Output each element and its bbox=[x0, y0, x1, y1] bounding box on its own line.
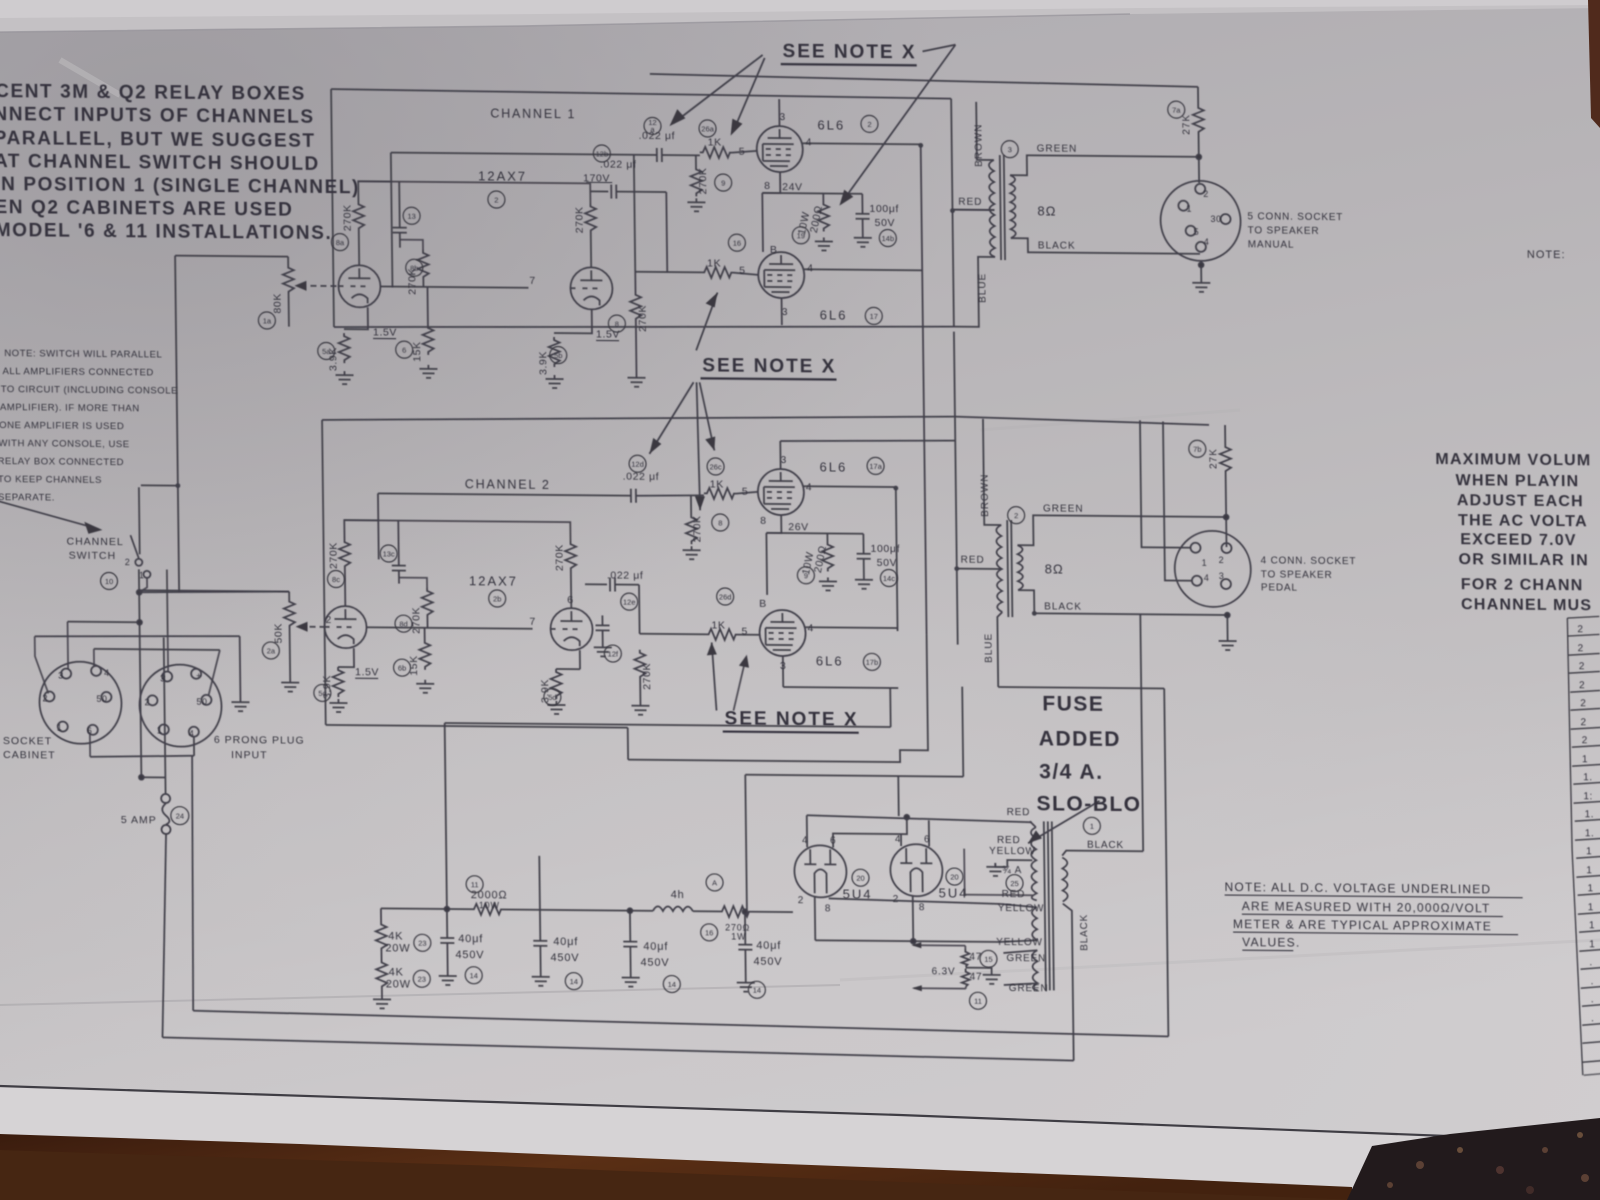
svg-text:BLACK: BLACK bbox=[1079, 914, 1090, 951]
svg-text:270K: 270K bbox=[554, 544, 566, 571]
wire: V6a cathode bbox=[338, 648, 354, 667]
svg-text:40μf: 40μf bbox=[553, 936, 578, 948]
svg-text:GREEN: GREEN bbox=[1009, 983, 1049, 994]
resistor 3.9K V3b bbox=[549, 337, 560, 367]
svg-text:14b: 14b bbox=[882, 234, 895, 243]
svg-text:14: 14 bbox=[469, 971, 477, 980]
wire: inner top rail bbox=[780, 439, 955, 443]
svg-text:1: 1 bbox=[139, 570, 145, 580]
wire: switch riser to contact bbox=[138, 487, 141, 554]
svg-text:GREEN: GREEN bbox=[1006, 953, 1046, 964]
svg-text:2: 2 bbox=[1578, 643, 1584, 654]
wire: channel 2 box right bbox=[955, 417, 958, 645]
wire: hline y625 bbox=[68, 621, 140, 624]
svg-text:50: 50 bbox=[96, 694, 107, 704]
svg-text:8c: 8c bbox=[332, 575, 340, 584]
wire: bus continues down bbox=[922, 276, 926, 634]
svg-text:12f: 12f bbox=[608, 649, 619, 658]
svg-text:2: 2 bbox=[1579, 661, 1585, 672]
svg-text:5b: 5b bbox=[554, 351, 562, 360]
svg-text:24V: 24V bbox=[782, 181, 803, 193]
wire: V2 plate down and along box bottom bbox=[781, 298, 783, 325]
svg-text:26V: 26V bbox=[788, 521, 809, 533]
socket 4-conn to speaker pedal bbox=[1174, 531, 1251, 608]
svg-text:1K: 1K bbox=[707, 257, 721, 269]
wire: mains inner left vertical bbox=[190, 756, 195, 1011]
svg-text:27K: 27K bbox=[1181, 114, 1192, 135]
svg-text:RED: RED bbox=[961, 555, 985, 566]
resistor 1K ch2 upper bbox=[704, 488, 736, 499]
resistor 270K V3b tail bbox=[634, 272, 636, 292]
ground 50K bbox=[281, 679, 299, 692]
svg-text:17a: 17a bbox=[869, 462, 882, 471]
svg-text:CABINET: CABINET bbox=[3, 749, 56, 761]
wire: channel 1 box left bbox=[331, 89, 334, 327]
svg-text:9: 9 bbox=[721, 179, 725, 188]
svg-text:.: . bbox=[1589, 957, 1592, 968]
svg-text:FUSE: FUSE bbox=[1042, 692, 1104, 716]
svg-text:10W: 10W bbox=[479, 900, 500, 910]
wire: OPT2 red lead bbox=[957, 568, 1002, 570]
see note x top arrows bbox=[673, 54, 764, 124]
wire: OPT2 blue lead down bbox=[997, 612, 1003, 687]
resistor 200ohm 10W bbox=[822, 193, 824, 201]
svg-text:IN POSITION 1 (SINGLE CHANNEL): IN POSITION 1 (SINGLE CHANNEL) bbox=[0, 174, 360, 198]
ground below 270K bbox=[687, 198, 705, 211]
svg-text:5 AMP: 5 AMP bbox=[121, 814, 157, 826]
svg-text:THE AC VOLTA: THE AC VOLTA bbox=[1458, 512, 1588, 530]
svg-text:5U4: 5U4 bbox=[843, 887, 873, 902]
wire: sock1 feeds bbox=[35, 636, 49, 693]
wire: V4 plate up to box bbox=[779, 441, 781, 469]
svg-text:4: 4 bbox=[807, 622, 814, 634]
svg-text:5: 5 bbox=[742, 486, 749, 498]
wire: OPT1 blue lead down bbox=[953, 257, 996, 327]
op tube V2 6L6 lower bbox=[758, 252, 805, 298]
svg-text:5: 5 bbox=[741, 626, 748, 638]
resistor 15K cathode bias bbox=[426, 287, 428, 325]
svg-text:2: 2 bbox=[125, 557, 131, 567]
svg-text:EN Q2 CABINETS ARE USED: EN Q2 CABINETS ARE USED bbox=[0, 197, 294, 221]
wire: hline y780 bbox=[141, 776, 165, 778]
preamp V3 12AX7 section A bbox=[338, 265, 381, 307]
junction dot bbox=[1196, 154, 1201, 159]
svg-text:27K: 27K bbox=[1208, 448, 1219, 469]
svg-text:PEDAL: PEDAL bbox=[1261, 582, 1298, 593]
svg-text:3: 3 bbox=[782, 306, 789, 318]
svg-text:8d: 8d bbox=[399, 620, 407, 629]
wire: OPT1 green secondary to socket bbox=[1010, 155, 1199, 177]
svg-text:450V: 450V bbox=[753, 956, 782, 968]
wire: V2 pin4 to screen bus bbox=[804, 269, 922, 270]
underline marks for voltages bbox=[349, 180, 812, 682]
capacitor 100uf ch2 bbox=[862, 534, 864, 554]
wire: switch riser vertical bbox=[175, 256, 179, 593]
svg-text:3: 3 bbox=[58, 671, 64, 681]
ground 3.9K V3b bbox=[545, 375, 563, 388]
svg-text:5U4: 5U4 bbox=[939, 885, 969, 900]
svg-text:23: 23 bbox=[418, 975, 426, 984]
wire: mains outer line bbox=[162, 1037, 1073, 1060]
svg-text:3.9K: 3.9K bbox=[537, 351, 549, 375]
coupling cap .022 ch2 bbox=[585, 583, 607, 585]
wire: B+ drop to filter bbox=[745, 775, 747, 912]
svg-text:14: 14 bbox=[570, 977, 578, 986]
svg-text:14: 14 bbox=[668, 980, 676, 989]
svg-text:1a: 1a bbox=[263, 316, 272, 325]
speaker socket labels bbox=[1247, 211, 1356, 594]
svg-text:7: 7 bbox=[529, 616, 536, 628]
svg-text:5d: 5d bbox=[548, 693, 556, 702]
svg-text:26d: 26d bbox=[719, 592, 732, 601]
faint creases bbox=[0, 14, 1130, 32]
svg-text:8: 8 bbox=[825, 903, 832, 914]
svg-text:MANUAL: MANUAL bbox=[1248, 239, 1295, 250]
svg-text:SEE NOTE X: SEE NOTE X bbox=[782, 41, 916, 63]
circled reference numbers bbox=[95, 91, 1213, 1011]
svg-text:20W: 20W bbox=[385, 942, 410, 954]
svg-text:FOR 2 CHANN: FOR 2 CHANN bbox=[1461, 576, 1584, 594]
wire: fuse lead bbox=[164, 637, 166, 794]
svg-text:4 CONN. SOCKET: 4 CONN. SOCKET bbox=[1261, 555, 1357, 567]
wire: input from switch riser bbox=[175, 256, 288, 257]
wire: input harness h1 bbox=[139, 569, 141, 777]
svg-text:CHANNEL: CHANNEL bbox=[66, 536, 123, 549]
socket labels bbox=[3, 732, 306, 828]
svg-text:4K: 4K bbox=[389, 966, 404, 978]
switch lever bbox=[130, 535, 138, 558]
svg-text:9: 9 bbox=[804, 571, 808, 580]
wire: V3a cathode bbox=[344, 307, 368, 329]
ground 200ohm bbox=[815, 237, 833, 250]
wire: cathode rail yellow top bbox=[829, 898, 1001, 904]
svg-text:6: 6 bbox=[924, 834, 931, 845]
svg-text:.: . bbox=[1591, 976, 1594, 987]
resistor 3.9K V6b bbox=[551, 669, 562, 699]
svg-text:4: 4 bbox=[802, 835, 809, 846]
wire: channel 2 box left bbox=[322, 420, 326, 725]
svg-text:1: 1 bbox=[1186, 204, 1192, 214]
ground 15K bbox=[419, 365, 437, 378]
svg-text:1: 1 bbox=[1090, 822, 1094, 831]
wire: x640 vertical ch2 bbox=[638, 585, 641, 634]
svg-text:2: 2 bbox=[1582, 735, 1588, 746]
svg-text:2b: 2b bbox=[493, 594, 501, 603]
wire: stub at y488 bbox=[141, 484, 178, 486]
wire: PS box left / cap1 lead bbox=[445, 723, 448, 938]
svg-text:BROWN: BROWN bbox=[973, 123, 985, 166]
PT primary winding bbox=[1062, 858, 1068, 902]
svg-text:INPUT: INPUT bbox=[231, 749, 268, 761]
see note x3 arrow bbox=[712, 642, 717, 710]
svg-text:1.: 1. bbox=[1585, 809, 1594, 820]
svg-text:4: 4 bbox=[806, 481, 813, 493]
svg-text:6L6: 6L6 bbox=[816, 653, 844, 668]
svg-text:3: 3 bbox=[780, 660, 787, 672]
svg-text:6L6: 6L6 bbox=[817, 117, 845, 132]
svg-text:CHANNEL 2: CHANNEL 2 bbox=[465, 477, 551, 492]
resistor 2000ohm 10W bbox=[471, 904, 503, 915]
svg-text:2: 2 bbox=[1014, 511, 1018, 520]
svg-text:1: 1 bbox=[1202, 558, 1208, 568]
svg-text:WHEN PLAYIN: WHEN PLAYIN bbox=[1456, 472, 1580, 490]
svg-text:TO SPEAKER: TO SPEAKER bbox=[1261, 569, 1333, 581]
svg-text:4: 4 bbox=[104, 668, 110, 678]
svg-text:.: . bbox=[1591, 1013, 1594, 1024]
top-left printed paragraph bbox=[0, 81, 361, 244]
svg-text:B: B bbox=[759, 598, 767, 610]
svg-text:7a: 7a bbox=[1172, 106, 1181, 115]
socket pin labels bbox=[36, 178, 1228, 748]
svg-text:1: 1 bbox=[1589, 920, 1595, 931]
svg-text:2: 2 bbox=[144, 697, 150, 707]
svg-text:BROWN: BROWN bbox=[980, 473, 992, 516]
choke 4h bbox=[653, 906, 693, 911]
svg-text:8: 8 bbox=[615, 320, 619, 329]
wire: pole riser bbox=[139, 577, 147, 592]
svg-text:270K: 270K bbox=[573, 206, 585, 233]
svg-text:1: 1 bbox=[157, 725, 163, 735]
wire: hline y760 bbox=[90, 755, 194, 758]
socket 5-conn to speaker manual bbox=[1160, 180, 1241, 261]
switch contacts bbox=[135, 559, 142, 566]
wire: V4 cathode bbox=[766, 515, 781, 533]
handwritten left note bbox=[0, 348, 179, 505]
tube labels bbox=[463, 114, 968, 902]
wire: OPT1 red lead bbox=[954, 209, 994, 211]
svg-text:SWITCH: SWITCH bbox=[69, 550, 117, 562]
bottom-right handwritten note bbox=[1224, 880, 1492, 951]
transformer OPT1 primary coil bbox=[989, 160, 995, 257]
svg-text:12AX7: 12AX7 bbox=[469, 573, 518, 588]
wire: V7 pin4 lead bbox=[806, 815, 808, 847]
svg-text:1K: 1K bbox=[711, 619, 725, 631]
resistor 3.9K V6a bbox=[333, 667, 344, 697]
svg-text:NNECT INPUTS OF CHANNELS: NNECT INPUTS OF CHANNELS bbox=[0, 104, 315, 128]
svg-text:YELLOW: YELLOW bbox=[996, 937, 1043, 948]
svg-text:4: 4 bbox=[895, 834, 902, 845]
wire: V7 cathode drop bbox=[814, 897, 817, 940]
SEE NOTE X bottom bbox=[724, 709, 858, 731]
wire: V5 plate down bbox=[782, 656, 784, 687]
svg-text:8b: 8b bbox=[410, 264, 418, 273]
svg-text:.022 μf: .022 μf bbox=[607, 569, 644, 581]
wire: V4 pin4 right bbox=[804, 485, 896, 488]
wire: V5 grid 1K bbox=[640, 633, 706, 636]
wire: riser x962 bbox=[962, 687, 963, 777]
svg-text:RED: RED bbox=[958, 197, 982, 208]
svg-text:13: 13 bbox=[407, 212, 415, 221]
wire: PT primary top lead black bbox=[1062, 851, 1143, 857]
svg-text:2: 2 bbox=[1577, 624, 1583, 635]
input pot 50K ch2 bbox=[288, 592, 290, 599]
svg-text:100μf: 100μf bbox=[869, 203, 899, 215]
wire: plate top rail 5U4 bbox=[807, 815, 1032, 822]
svg-text:20: 20 bbox=[856, 874, 864, 883]
svg-text:270K: 270K bbox=[341, 204, 353, 231]
svg-text:1:: 1: bbox=[1583, 791, 1592, 802]
svg-text:4: 4 bbox=[806, 136, 813, 148]
MAXIMUM VOLUME block bbox=[1435, 451, 1593, 614]
svg-text:450V: 450V bbox=[550, 952, 579, 964]
svg-text:A: A bbox=[712, 878, 717, 887]
svg-text:EXCEED 7.0V: EXCEED 7.0V bbox=[1460, 531, 1577, 549]
svg-text:5: 5 bbox=[1194, 227, 1200, 237]
svg-text:5: 5 bbox=[739, 265, 746, 277]
svg-text:13c: 13c bbox=[383, 549, 395, 558]
svg-text:MAXIMUM VOLUM: MAXIMUM VOLUM bbox=[1435, 451, 1591, 469]
resistor 270K plate V6a bbox=[339, 539, 350, 569]
wire: channel 1 box top bbox=[331, 89, 951, 99]
wire: V1 cathode down bbox=[762, 172, 780, 193]
svg-text:8: 8 bbox=[718, 518, 722, 527]
op tube V4 6L6 ch2 upper bbox=[758, 469, 805, 515]
wire: V8 pin6 lead bbox=[928, 820, 930, 846]
wire: mains outer left vertical (from fuse) bbox=[160, 833, 168, 1037]
wire: socket2 ground bbox=[1226, 615, 1228, 637]
resistor 15K ch2 bbox=[424, 628, 426, 640]
arrow to switch bbox=[0, 501, 98, 529]
svg-text:SEE NOTE X: SEE NOTE X bbox=[702, 355, 836, 377]
wire: V6a plate up bbox=[344, 569, 346, 606]
svg-text:ARE MEASURED WITH 20,000Ω/VOLT: ARE MEASURED WITH 20,000Ω/VOLT bbox=[1242, 899, 1491, 915]
svg-text:7: 7 bbox=[529, 275, 536, 287]
svg-text:19: 19 bbox=[797, 231, 805, 240]
wire: PT HV top lead red bbox=[1030, 821, 1036, 827]
svg-text:20W: 20W bbox=[386, 978, 411, 990]
power transformer PT core bbox=[1044, 821, 1054, 990]
wire: channel 1 box right bbox=[951, 99, 954, 327]
ground bbox=[683, 546, 701, 559]
resistor 1K ch2 lower bbox=[706, 629, 738, 640]
svg-text:2: 2 bbox=[42, 693, 48, 703]
svg-text:TO SPEAKER: TO SPEAKER bbox=[1248, 225, 1320, 237]
FUSE ADDED block bbox=[1035, 692, 1141, 816]
dark strip top right edge bbox=[1588, 0, 1600, 128]
svg-text:270K: 270K bbox=[697, 167, 709, 194]
svg-text:ADDED: ADDED bbox=[1039, 727, 1121, 751]
wire: V3b cathode bbox=[554, 309, 592, 333]
svg-text:12b: 12b bbox=[596, 149, 609, 158]
transformer OPT1 secondary coil bbox=[1010, 175, 1016, 238]
svg-text:2: 2 bbox=[893, 894, 900, 905]
svg-text:1.5V: 1.5V bbox=[355, 666, 379, 678]
svg-text:50: 50 bbox=[196, 697, 207, 707]
svg-text:270K: 270K bbox=[691, 515, 703, 542]
svg-text:NOTE: ALL D.C. VOLTAGE UNDERLI: NOTE: ALL D.C. VOLTAGE UNDERLINED bbox=[1224, 880, 1491, 896]
resistor 270K plate V3a bbox=[353, 201, 364, 231]
svg-text:GREEN: GREEN bbox=[1043, 503, 1084, 514]
svg-text:GREEN: GREEN bbox=[1037, 143, 1078, 154]
wire: OPT1 black secondary bbox=[1011, 238, 1200, 254]
svg-text:270K: 270K bbox=[637, 305, 649, 332]
resistor 270K plate V6b bbox=[565, 541, 576, 571]
svg-text:40μf: 40μf bbox=[643, 941, 668, 953]
wire: ch2 grid rail to C12d bbox=[378, 493, 631, 495]
svg-text:1: 1 bbox=[1589, 939, 1595, 950]
wire: riser to ch2 inner bottom bbox=[889, 688, 891, 727]
SEE NOTE X top bbox=[782, 41, 916, 63]
svg-text:16: 16 bbox=[733, 239, 741, 248]
svg-text:1.5V: 1.5V bbox=[373, 326, 397, 338]
PT 5V winding bbox=[1032, 907, 1037, 940]
svg-text:50K: 50K bbox=[272, 623, 284, 644]
op tube V5 6L6 ch2 lower bbox=[759, 610, 806, 656]
PT HV secondary winding bbox=[1031, 827, 1037, 900]
wire: channel 1 box bottom bbox=[334, 321, 954, 333]
svg-text:OR SIMILAR IN: OR SIMILAR IN bbox=[1459, 551, 1589, 569]
svg-text:12d: 12d bbox=[631, 460, 644, 469]
transformer OPT2 secondary bbox=[1017, 545, 1023, 590]
svg-text:450V: 450V bbox=[455, 949, 484, 961]
wood table bbox=[0, 1134, 1352, 1200]
paper bottom edge: bright curled edge then dark table bbox=[0, 1086, 1600, 1200]
svg-text:ADJUST EACH: ADJUST EACH bbox=[1457, 492, 1584, 510]
svg-text:BLUE: BLUE bbox=[984, 633, 995, 663]
wire: V1 pin4 screen to right bbox=[803, 143, 921, 144]
wire: vertical from cap line bbox=[391, 153, 393, 288]
svg-text:NOTE: SWITCH WILL PARALLEL: NOTE: SWITCH WILL PARALLEL bbox=[4, 348, 162, 360]
wire: cathode rail bbox=[762, 192, 862, 195]
svg-text:11: 11 bbox=[471, 880, 479, 889]
preamp V6 12AX7 ch2 section B bbox=[550, 608, 593, 650]
op tube V1 6L6 upper bbox=[756, 126, 803, 172]
svg-text:BLUE: BLUE bbox=[977, 273, 988, 303]
value labels channel 1 bbox=[370, 107, 900, 343]
wire: choke input from caps bbox=[381, 907, 471, 910]
svg-text:5c: 5c bbox=[318, 689, 326, 698]
svg-text:26a: 26a bbox=[701, 124, 714, 133]
svg-text:3: 3 bbox=[1219, 571, 1225, 581]
SEE NOTE X mid bbox=[702, 355, 836, 377]
svg-text:1: 1 bbox=[1587, 883, 1593, 894]
CHANNEL labels bbox=[460, 106, 581, 492]
svg-text:AT CHANNEL SWITCH SHOULD: AT CHANNEL SWITCH SHOULD bbox=[0, 151, 320, 175]
wire: dashed grid entry V3a bbox=[300, 285, 338, 287]
ground 100uf bbox=[854, 234, 872, 247]
junction dots bbox=[918, 143, 923, 148]
wire: ch2 box bottom bbox=[326, 725, 628, 728]
svg-text:3: 3 bbox=[779, 111, 786, 123]
resistor 27K feedback upper bbox=[1197, 87, 1199, 105]
svg-text:1.5V: 1.5V bbox=[596, 328, 620, 340]
rectifier V7 5U4 bbox=[794, 845, 847, 897]
svg-text:RED: RED bbox=[1007, 807, 1031, 818]
svg-text:SEPARATE.: SEPARATE. bbox=[0, 492, 55, 504]
svg-text:BLACK: BLACK bbox=[1087, 840, 1124, 851]
svg-text:6b: 6b bbox=[398, 664, 406, 673]
svg-text:YELLOW: YELLOW bbox=[998, 903, 1045, 914]
wire: V7 pin6 lead bbox=[833, 815, 907, 848]
socket 6 prong plug input bbox=[139, 664, 222, 747]
wire: mains inner line bbox=[193, 1011, 1168, 1037]
svg-text:WITH ANY CONSOLE, USE: WITH ANY CONSOLE, USE bbox=[0, 438, 130, 450]
svg-text:.022 μf: .022 μf bbox=[623, 471, 660, 483]
svg-text:CHANNEL 1: CHANNEL 1 bbox=[490, 106, 576, 121]
wire: V6b cathode + cap bbox=[579, 650, 581, 669]
svg-text:8: 8 bbox=[764, 180, 771, 192]
svg-text:4: 4 bbox=[189, 729, 195, 739]
svg-text:MODEL '6 & 11 INSTALLATIONS.: MODEL '6 & 11 INSTALLATIONS. bbox=[0, 220, 332, 244]
grid cap .1uf ch2 bbox=[397, 521, 400, 566]
wire: cathode rail ch2 bbox=[766, 532, 863, 535]
svg-text:40μf: 40μf bbox=[756, 940, 781, 952]
wire: black riser x1142 bbox=[1140, 614, 1143, 851]
svg-text:8: 8 bbox=[760, 515, 767, 527]
svg-text:4: 4 bbox=[1204, 573, 1210, 583]
wire: mains riser x1164 bbox=[1164, 688, 1168, 1036]
svg-text:2: 2 bbox=[494, 195, 498, 204]
